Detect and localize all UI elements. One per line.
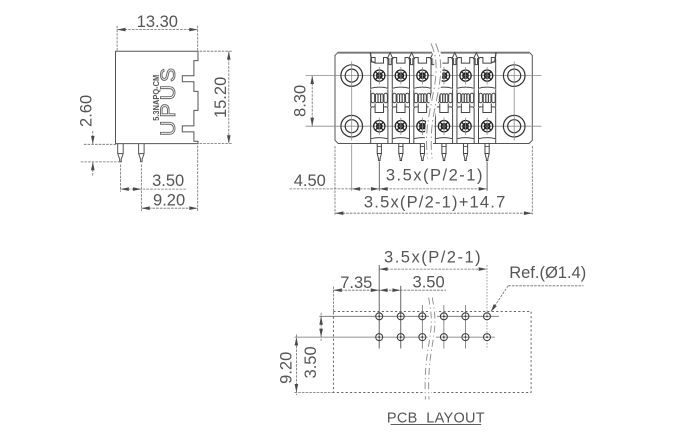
hook left wall col1 xyxy=(370,53,374,63)
svg-text:3.50: 3.50 xyxy=(152,172,184,190)
svg-text:2.60: 2.60 xyxy=(77,95,95,127)
pcb holes row 1 xyxy=(376,313,383,320)
mounting hole bottom-right xyxy=(503,115,525,137)
overall width dimension xyxy=(335,146,532,215)
break line (front view) xyxy=(429,44,439,159)
terminal column 3 xyxy=(414,58,431,161)
hole column centerline 6 xyxy=(486,265,488,349)
pcb holes row 2 xyxy=(376,334,383,341)
connector body (front view) xyxy=(335,52,532,143)
svg-text:3.50: 3.50 xyxy=(302,346,320,378)
mounting hole bottom-left xyxy=(341,115,363,137)
break line (pcb layout) xyxy=(427,298,433,400)
hole column centerline 5 xyxy=(464,305,466,349)
svg-text:8.30: 8.30 xyxy=(292,85,310,117)
grid centerline row1 xyxy=(319,315,499,317)
hole column centerline 1 xyxy=(378,265,380,349)
mounting hole centerline left xyxy=(351,62,353,141)
mounting hole top-right xyxy=(503,65,525,87)
leader Ref.(O1.4) xyxy=(492,286,584,311)
extension line pin1 xyxy=(378,162,380,191)
svg-text:Ref.(Ø1.4): Ref.(Ø1.4) xyxy=(509,264,586,282)
pin 1 (side view) xyxy=(118,144,124,162)
svg-text:9.20: 9.20 xyxy=(278,352,296,384)
extension line pin6 xyxy=(486,162,488,191)
terminal column 5 xyxy=(457,58,474,161)
dimension line 4.50 and 3.5x(P/2-1) xyxy=(290,188,488,190)
hook right wall col6 xyxy=(492,53,496,63)
grid centerline row2 xyxy=(295,336,496,338)
wire entry arrows on top face xyxy=(387,53,393,65)
svg-text:5.3NAPQ-CM: 5.3NAPQ-CM xyxy=(151,75,161,121)
dimension 7.35 and 3.50 (pcb) xyxy=(333,287,446,312)
svg-text:7.35: 7.35 xyxy=(340,274,372,292)
mounting hole centerline right xyxy=(513,62,515,141)
dimension 3.50 vertical (pcb) xyxy=(320,313,322,341)
dimension 13.30 xyxy=(117,26,198,51)
svg-text:15.20: 15.20 xyxy=(212,77,230,118)
pcb outline (dashed) xyxy=(333,311,531,392)
svg-text:9.20: 9.20 xyxy=(153,192,185,210)
terminal column 1 xyxy=(371,58,388,161)
svg-text:13.30: 13.30 xyxy=(137,13,178,31)
hole column centerline 3 xyxy=(421,305,423,349)
dimension 3.50 (pin pitch, side view) xyxy=(120,165,185,212)
hole column centerline 2 xyxy=(400,286,402,349)
terminal column 4 xyxy=(435,58,452,161)
hole column centerline 4 xyxy=(443,305,445,349)
dimension 2.60 xyxy=(81,131,122,176)
dimension 9.20 (pcb) xyxy=(295,335,334,396)
svg-text:3.50: 3.50 xyxy=(413,274,445,292)
svg-text:4.50: 4.50 xyxy=(294,172,326,190)
svg-text:3.5x(P/2-1)+14.7: 3.5x(P/2-1)+14.7 xyxy=(364,194,507,212)
dimension 8.30 xyxy=(311,76,313,127)
connector body (side view) xyxy=(116,51,199,143)
terminal column 2 xyxy=(392,58,409,161)
dimension 3.5x(P/2-1) (pcb) xyxy=(379,268,487,270)
pin 2 (side view) xyxy=(139,144,145,162)
mounting hole top-left xyxy=(341,65,363,87)
extension line mounting hole xyxy=(351,145,353,191)
svg-text:3.5x(P/2-1): 3.5x(P/2-1) xyxy=(384,248,482,266)
svg-text:3.5x(P/2-1): 3.5x(P/2-1) xyxy=(386,167,484,185)
centerline row2 xyxy=(306,125,542,127)
terminal column 6 xyxy=(479,58,496,161)
centerline row1 xyxy=(306,75,542,77)
dimension 9.20 (side view) xyxy=(141,146,197,212)
dimension 15.20 xyxy=(200,51,233,143)
